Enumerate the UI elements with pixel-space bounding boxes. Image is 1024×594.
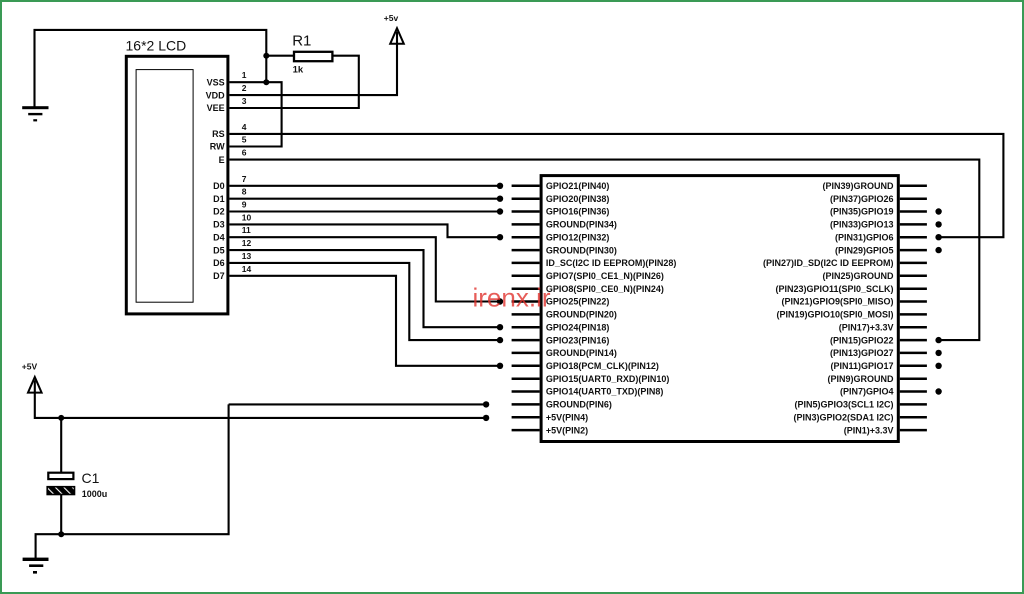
pin label (PIN9)GROUND: [827, 374, 894, 384]
pin stub right (PIN15)GPIO22: [900, 339, 927, 342]
pin number 9: [242, 200, 247, 210]
svg-text:9: 9: [242, 200, 247, 210]
pin number 14: [242, 264, 252, 274]
GPIO header U1: [541, 176, 898, 442]
pin stub right (PIN31)GPIO6: [900, 236, 927, 239]
pin label (PIN11)GPIO17: [830, 361, 893, 371]
svg-text:irenx.ir: irenx.ir: [473, 283, 551, 313]
pin stub left GROUND(PIN20): [512, 313, 540, 316]
pin VSS label: [207, 77, 225, 87]
wire C1 to ground rail: [60, 495, 62, 535]
power +5V arrow bottom: [28, 377, 42, 393]
svg-text:GROUND(PIN14): GROUND(PIN14): [546, 348, 617, 358]
svg-text:(PIN21)GPIO9(SPI0_MISO): (PIN21)GPIO9(SPI0_MISO): [781, 297, 893, 307]
svg-text:+5V: +5V: [22, 361, 38, 371]
pin stub right (PIN21)GPIO9(SPI0_MISO): [900, 300, 927, 303]
svg-text:D4: D4: [213, 232, 225, 242]
svg-text:GPIO18(PCM_CLK)(PIN12): GPIO18(PCM_CLK)(PIN12): [546, 361, 659, 371]
svg-text:(PIN33)GPIO13: (PIN33)GPIO13: [830, 220, 894, 230]
svg-text:12: 12: [242, 238, 252, 248]
svg-text:GROUND(PIN20): GROUND(PIN20): [546, 310, 617, 320]
pin stub right (PIN5)GPIO3(SCL1 I2C): [900, 403, 927, 406]
pin stub right (PIN19)GPIO10(SPI0_MOSI): [900, 313, 927, 316]
pin label GPIO7(SPI0_CE1_N)(PIN26): [546, 271, 664, 281]
svg-text:GPIO23(PIN16): GPIO23(PIN16): [546, 335, 610, 345]
pin stub left GPIO12(PIN32): [512, 236, 540, 239]
svg-text:GPIO25(PIN22): GPIO25(PIN22): [546, 297, 610, 307]
svg-text:1000u: 1000u: [82, 489, 108, 499]
wire RS net: [229, 134, 1003, 237]
pin stub right (PIN25)GROUND: [900, 275, 927, 278]
svg-text:(PIN19)GPIO10(SPI0_MOSI): (PIN19)GPIO10(SPI0_MOSI): [776, 310, 893, 320]
svg-text:8: 8: [242, 187, 247, 197]
svg-text:D5: D5: [213, 245, 225, 255]
label C1: [82, 470, 100, 486]
LCD module 16*2: [126, 56, 228, 314]
svg-text:R1: R1: [292, 32, 311, 49]
node D7 end: [497, 363, 503, 369]
wire J1 to R1: [266, 55, 294, 57]
power +5V label bottom: [22, 361, 38, 371]
svg-text:GROUND(PIN6): GROUND(PIN6): [546, 400, 612, 410]
svg-text:(PIN37)GPIO26: (PIN37)GPIO26: [830, 194, 894, 204]
svg-text:1: 1: [242, 70, 247, 80]
pin label GPIO25(PIN22): [546, 297, 610, 307]
pin label (PIN7)GPIO4: [840, 387, 894, 397]
svg-text:GROUND(PIN30): GROUND(PIN30): [546, 245, 617, 255]
pin stub right (PIN29)GPIO5: [900, 249, 927, 252]
svg-text:D0: D0: [213, 181, 225, 191]
pin VEE label: [207, 103, 225, 113]
node terminal (PIN33)GPIO13: [935, 221, 941, 227]
node terminal (PIN11)GPIO17: [935, 363, 941, 369]
svg-text:GPIO14(UART0_TXD)(PIN8): GPIO14(UART0_TXD)(PIN8): [546, 387, 664, 397]
pin VDD label: [206, 90, 226, 100]
svg-text:(PIN17)+3.3V: (PIN17)+3.3V: [839, 322, 894, 332]
pin stub right (PIN39)GROUND: [900, 185, 927, 188]
pin stub right (PIN17)+3.3V: [900, 326, 927, 329]
pin label GPIO24(PIN18): [546, 322, 610, 332]
pin D1 label: [213, 194, 225, 204]
pin stub right (PIN3)GPIO2(SDA1 I2C): [900, 416, 927, 419]
node terminal (PIN29)GPIO5: [935, 247, 941, 253]
pin label (PIN23)GPIO11(SPI0_SCLK): [775, 284, 893, 294]
pin label (PIN15)GPIO22: [830, 335, 894, 345]
watermark irenx.ir: [473, 283, 551, 313]
pin label GPIO20(PIN38): [546, 194, 610, 204]
svg-text:(PIN25)GROUND: (PIN25)GROUND: [822, 271, 894, 281]
wire D4 net: [229, 237, 500, 301]
pin label (PIN25)GROUND: [822, 271, 894, 281]
svg-text:(PIN27)ID_SD(I2C ID EEPROM): (PIN27)ID_SD(I2C ID EEPROM): [763, 258, 894, 268]
pin stub right (PIN23)GPIO11(SPI0_SCLK): [900, 287, 927, 290]
capacitor C1: [47, 473, 74, 495]
svg-text:10: 10: [242, 212, 252, 222]
node J3 (cap junction): [58, 415, 64, 421]
pin stub left GPIO16(PIN36): [512, 210, 540, 213]
wire VSS-to-ground top: [35, 30, 267, 107]
wire VSS to RW: [229, 82, 281, 146]
pin label GPIO15(UART0_RXD)(PIN10): [546, 374, 670, 384]
pin label GROUND(PIN34): [546, 220, 617, 230]
wire +5V net to PIN4: [35, 380, 486, 418]
svg-text:(PIN13)GPIO27: (PIN13)GPIO27: [830, 348, 894, 358]
svg-text:(PIN39)GROUND: (PIN39)GROUND: [822, 181, 894, 191]
pin label +5V(PIN4): [546, 412, 588, 422]
pin D5 label: [213, 245, 225, 255]
pin number 10: [242, 212, 252, 222]
pin RS label: [212, 129, 225, 139]
pin stub left GPIO20(PIN38): [512, 197, 540, 200]
svg-text:E: E: [219, 155, 225, 165]
pin label (PIN37)GPIO26: [830, 194, 894, 204]
node D0 end: [497, 183, 503, 189]
svg-text:VSS: VSS: [207, 77, 225, 87]
power +5v label top: [384, 13, 399, 23]
pin label (PIN35)GPIO19: [830, 207, 894, 217]
svg-text:GPIO15(UART0_RXD)(PIN10): GPIO15(UART0_RXD)(PIN10): [546, 374, 670, 384]
pin stub right (PIN11)GPIO17: [900, 365, 927, 368]
pin label (PIN5)GPIO3(SCL1 I2C): [794, 400, 893, 410]
value 1000u: [82, 489, 108, 499]
node D5 end: [497, 324, 503, 330]
pin stub right (PIN9)GROUND: [900, 377, 927, 380]
pin label (PIN39)GROUND: [822, 181, 894, 191]
pin RW label: [210, 142, 225, 152]
svg-text:2: 2: [242, 83, 247, 93]
pin stub right (PIN33)GPIO13: [900, 223, 927, 226]
node D4 end: [497, 298, 503, 304]
node D3 end: [497, 234, 503, 240]
wire E net: [229, 160, 979, 341]
pin stub right (PIN27)ID_SD(I2C ID EEPROM): [900, 262, 927, 265]
svg-text:(PIN5)GPIO3(SCL1 I2C): (PIN5)GPIO3(SCL1 I2C): [794, 400, 893, 410]
pin label GPIO14(UART0_TXD)(PIN8): [546, 387, 664, 397]
node D2 end: [497, 208, 503, 214]
node terminal (PIN7)GPIO4: [935, 388, 941, 394]
svg-text:3: 3: [242, 96, 247, 106]
svg-text:(PIN23)GPIO11(SPI0_SCLK): (PIN23)GPIO11(SPI0_SCLK): [775, 284, 893, 294]
pin label (PIN17)+3.3V: [839, 322, 894, 332]
svg-text:GPIO12(PIN32): GPIO12(PIN32): [546, 232, 610, 242]
pin label GPIO16(PIN36): [546, 207, 610, 217]
svg-text:D7: D7: [213, 271, 225, 281]
pin stub left GPIO8(SPI0_CE0_N)(PIN24): [512, 287, 540, 290]
wire D5 net: [229, 250, 500, 327]
pin D4 label: [213, 232, 225, 242]
pin stub left ID_SC(I2C ID EEPROM)(PIN28): [512, 262, 540, 265]
pin D0 label: [213, 181, 225, 191]
svg-text:(PIN35)GPIO19: (PIN35)GPIO19: [830, 207, 894, 217]
pin label GPIO18(PCM_CLK)(PIN12): [546, 361, 659, 371]
svg-text:RW: RW: [210, 142, 225, 152]
pin label GPIO12(PIN32): [546, 232, 610, 242]
pin stub left GROUND(PIN34): [512, 223, 540, 226]
svg-text:5: 5: [242, 135, 247, 145]
svg-text:VDD: VDD: [206, 90, 226, 100]
resistor R1: [294, 52, 332, 61]
svg-text:GPIO7(SPI0_CE1_N)(PIN26): GPIO7(SPI0_CE1_N)(PIN26): [546, 271, 664, 281]
pin number 3: [242, 96, 247, 106]
svg-text:VEE: VEE: [207, 103, 225, 113]
node terminal (PIN13)GPIO27: [935, 350, 941, 356]
pin stub left GROUND(PIN6): [512, 403, 540, 406]
node GROUND PIN6 end: [483, 401, 489, 407]
pin stub left GPIO24(PIN18): [512, 326, 540, 329]
pin label GPIO21(PIN40): [546, 181, 610, 191]
pin number 6: [242, 148, 247, 158]
svg-text:7: 7: [242, 174, 247, 184]
svg-text:(PIN29)GPIO5: (PIN29)GPIO5: [835, 245, 894, 255]
wire R1 to VEE: [229, 56, 358, 108]
svg-text:16*2 LCD: 16*2 LCD: [126, 38, 187, 54]
wire D0 net: [229, 185, 500, 187]
svg-text:11: 11: [242, 225, 251, 235]
pin label ID_SC(I2C ID EEPROM)(PIN28): [546, 258, 677, 268]
pin label GROUND(PIN30): [546, 245, 617, 255]
node J2 (VSS junction): [263, 79, 269, 85]
svg-text:D1: D1: [213, 194, 225, 204]
pin number 11: [242, 225, 251, 235]
svg-text:4: 4: [242, 122, 247, 132]
svg-text:13: 13: [242, 251, 252, 261]
node RS-GPIO6: [935, 234, 941, 240]
pin number 12: [242, 238, 252, 248]
svg-text:GPIO24(PIN18): GPIO24(PIN18): [546, 322, 610, 332]
svg-text:+5v: +5v: [384, 13, 399, 23]
pin number 1: [242, 70, 247, 80]
svg-text:GPIO16(PIN36): GPIO16(PIN36): [546, 207, 610, 217]
label R1: [292, 32, 311, 49]
wire D6 net: [229, 263, 500, 340]
pin stub left GPIO18(PCM_CLK)(PIN12): [512, 365, 540, 368]
node D6 end: [497, 337, 503, 343]
label 16*2 LCD: [126, 38, 187, 54]
svg-text:(PIN11)GPIO17: (PIN11)GPIO17: [830, 361, 893, 371]
pin label GROUND(PIN14): [546, 348, 617, 358]
svg-text:(PIN7)GPIO4: (PIN7)GPIO4: [840, 387, 894, 397]
svg-text:1k: 1k: [293, 64, 304, 75]
wire J1-J2: [265, 56, 267, 82]
pin label (PIN31)GPIO6: [835, 232, 894, 242]
node terminal (PIN35)GPIO19: [935, 208, 941, 214]
pin number 13: [242, 251, 252, 261]
pin stub right (PIN37)GPIO26: [900, 197, 927, 200]
node +5V end: [483, 415, 489, 421]
svg-text:(PIN3)GPIO2(SDA1 I2C): (PIN3)GPIO2(SDA1 I2C): [793, 412, 893, 422]
pin label (PIN33)GPIO13: [830, 220, 894, 230]
pin number 5: [242, 135, 247, 145]
node J4 (ground rail junction): [58, 531, 64, 537]
pin label GROUND(PIN20): [546, 310, 617, 320]
pin stub left GROUND(PIN30): [512, 249, 540, 252]
svg-text:14: 14: [242, 264, 252, 274]
wire D7 net: [229, 276, 500, 366]
pin D2 label: [213, 207, 225, 217]
pin number 4: [242, 122, 247, 132]
svg-text:GPIO8(SPI0_CE0_N)(PIN24): GPIO8(SPI0_CE0_N)(PIN24): [546, 284, 664, 294]
pin stub right (PIN7)GPIO4: [900, 390, 927, 393]
svg-text:(PIN1)+3.3V: (PIN1)+3.3V: [844, 425, 894, 435]
pin number 2: [242, 83, 247, 93]
pin stub left GPIO14(UART0_TXD)(PIN8): [512, 390, 540, 393]
wire D1 net: [229, 198, 500, 200]
svg-text:GPIO21(PIN40): GPIO21(PIN40): [546, 181, 610, 191]
pin label GPIO8(SPI0_CE0_N)(PIN24): [546, 284, 664, 294]
pin D3 label: [213, 220, 225, 230]
pin D6 label: [213, 258, 225, 268]
pin stub left GPIO25(PIN22): [512, 300, 540, 303]
ground GND2: [23, 558, 49, 574]
wire GROUND PIN6 net: [229, 403, 487, 405]
pin label (PIN13)GPIO27: [830, 348, 894, 358]
pin stub right (PIN35)GPIO19: [900, 210, 927, 213]
wire D2 net: [229, 210, 500, 212]
pin stub left +5V(PIN2): [512, 429, 540, 432]
pin E label: [219, 155, 225, 165]
svg-text:6: 6: [242, 148, 247, 158]
wire D3 net: [229, 224, 500, 237]
svg-text:RS: RS: [212, 129, 225, 139]
pin label (PIN29)GPIO5: [835, 245, 894, 255]
ground GND1: [22, 106, 48, 121]
pin number 8: [242, 187, 247, 197]
value 1k: [293, 64, 304, 75]
pin label (PIN21)GPIO9(SPI0_MISO): [781, 297, 893, 307]
pin label (PIN27)ID_SD(I2C ID EEPROM): [763, 258, 894, 268]
svg-text:+5V(PIN2): +5V(PIN2): [546, 425, 588, 435]
pin label GROUND(PIN6): [546, 400, 612, 410]
svg-text:C1: C1: [82, 470, 100, 486]
svg-text:(PIN15)GPIO22: (PIN15)GPIO22: [830, 335, 894, 345]
wire ground rail: [36, 404, 229, 558]
pin stub left GPIO21(PIN40): [512, 185, 540, 188]
power +5v arrow top: [390, 28, 404, 44]
pin stub left +5V(PIN4): [512, 416, 540, 419]
node E-GPIO22: [935, 337, 941, 343]
svg-text:D6: D6: [213, 258, 225, 268]
pin label +5V(PIN2): [546, 425, 588, 435]
svg-text:D2: D2: [213, 207, 225, 217]
pin label (PIN3)GPIO2(SDA1 I2C): [793, 412, 893, 422]
pin number 7: [242, 174, 247, 184]
pin label (PIN1)+3.3V: [844, 425, 894, 435]
pin label GPIO23(PIN16): [546, 335, 610, 345]
svg-text:D3: D3: [213, 220, 225, 230]
node J1 (R1/VSS junction): [263, 53, 269, 59]
pin stub left GPIO7(SPI0_CE1_N)(PIN26): [512, 275, 540, 278]
pin stub right (PIN13)GPIO27: [900, 352, 927, 355]
node D1 end: [497, 196, 503, 202]
wire J3 to C1: [60, 418, 62, 473]
pin stub left GPIO15(UART0_RXD)(PIN10): [512, 377, 540, 380]
pin D7 label: [213, 271, 225, 281]
svg-text:GPIO20(PIN38): GPIO20(PIN38): [546, 194, 610, 204]
svg-text:ID_SC(I2C ID EEPROM)(PIN28): ID_SC(I2C ID EEPROM)(PIN28): [546, 258, 677, 268]
pin stub right (PIN1)+3.3V: [900, 429, 927, 432]
pin stub left GROUND(PIN14): [512, 352, 540, 355]
svg-text:+5V(PIN4): +5V(PIN4): [546, 412, 588, 422]
svg-text:(PIN31)GPIO6: (PIN31)GPIO6: [835, 232, 894, 242]
svg-text:(PIN9)GROUND: (PIN9)GROUND: [827, 374, 894, 384]
pin label (PIN19)GPIO10(SPI0_MOSI): [776, 310, 893, 320]
wire VDD net: [229, 32, 397, 96]
wire VSS net: [229, 81, 266, 83]
svg-text:GROUND(PIN34): GROUND(PIN34): [546, 220, 617, 230]
pin stub left GPIO23(PIN16): [512, 339, 540, 342]
